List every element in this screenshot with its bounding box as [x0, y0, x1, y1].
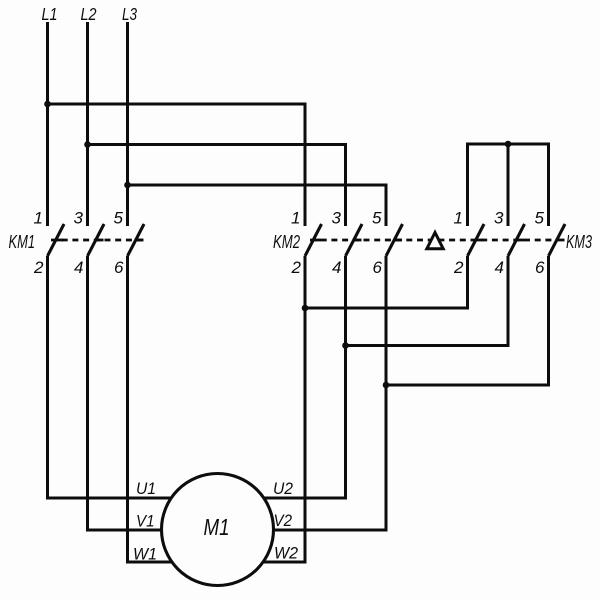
KM1 contact blade pole 5-6: [128, 224, 145, 256]
svg-text:L1: L1: [42, 4, 58, 24]
wire KM2 pin 6 to motor V2: [250, 256, 386, 530]
svg-text:2: 2: [291, 258, 302, 277]
svg-text:KM3: KM3: [566, 232, 592, 252]
svg-text:5: 5: [535, 209, 545, 228]
svg-text:3: 3: [74, 209, 84, 228]
KM2 contact blade pole 3-4: [346, 224, 363, 256]
svg-text:1: 1: [34, 209, 43, 228]
junction node W2 link: [302, 305, 309, 312]
wire L3 vertical: [126, 22, 129, 226]
KM2-KM3 mechanical linkage dashed line: [310, 239, 558, 242]
wire KM1 pin 6 to motor W1: [128, 256, 186, 562]
wire KM2 pin 2 to motor W2: [250, 256, 305, 562]
svg-text:3: 3: [332, 209, 342, 228]
wire L2 vertical: [86, 22, 89, 226]
svg-text:2: 2: [33, 258, 44, 277]
wire KM3 pin 6 to node V2: [386, 256, 549, 385]
junction node L2/KM2 branch: [84, 141, 91, 148]
svg-text:V2: V2: [274, 511, 293, 530]
svg-text:U1: U1: [136, 479, 156, 498]
KM3 contact blade pole 1-2: [468, 224, 485, 256]
svg-text:1: 1: [454, 209, 463, 228]
wire KM2 pin 4 to motor U2: [250, 256, 346, 498]
KM1 contact blade pole 3-4: [88, 224, 105, 256]
svg-text:W1: W1: [133, 545, 157, 564]
wire L3 branch to KM2 pin 5: [128, 185, 387, 226]
junction node U2 link: [342, 342, 349, 349]
wire L1 branch to KM2 pin 1: [48, 104, 306, 226]
junction node L1/KM2 branch: [44, 101, 51, 108]
wire L2 branch to KM2 pin 3: [88, 145, 346, 227]
KM1 contact blade pole 1-2: [48, 224, 65, 256]
svg-text:2: 2: [453, 258, 464, 277]
KM2 contact blade pole 1-2: [305, 224, 322, 256]
svg-text:3: 3: [494, 209, 504, 228]
svg-text:U2: U2: [273, 479, 293, 498]
svg-text:KM1: KM1: [9, 232, 36, 252]
svg-text:1: 1: [291, 209, 300, 228]
svg-text:6: 6: [373, 258, 383, 277]
KM3 contact blade pole 3-4: [508, 224, 525, 256]
wire KM3 pin 2 to node W2: [305, 256, 468, 308]
KM1 mechanical linkage dashed line: [51, 239, 144, 242]
wire KM3 pin 4 to node U2: [346, 256, 509, 346]
svg-text:W2: W2: [274, 544, 299, 563]
svg-text:4: 4: [495, 258, 504, 277]
svg-text:6: 6: [535, 258, 545, 277]
svg-text:4: 4: [74, 258, 83, 277]
junction node star bus: [505, 141, 512, 148]
svg-text:M1: M1: [204, 514, 230, 540]
KM2 contact blade pole 5-6: [386, 224, 403, 256]
delta symbol on linkage: [427, 233, 443, 249]
svg-text:L2: L2: [81, 4, 97, 24]
wire L1 vertical: [46, 22, 49, 226]
junction node L3/KM2 branch: [124, 182, 131, 189]
wire KM3 pin 3 riser: [507, 144, 510, 226]
motor M1 body: [162, 474, 274, 586]
svg-text:V1: V1: [136, 512, 155, 531]
junction node V2 link: [383, 382, 390, 389]
svg-text:5: 5: [372, 209, 382, 228]
svg-text:6: 6: [114, 258, 124, 277]
svg-text:5: 5: [114, 209, 124, 228]
wire KM1 pin 2 to motor U1: [48, 256, 186, 498]
svg-text:L3: L3: [122, 4, 137, 24]
svg-text:4: 4: [332, 258, 341, 277]
wire KM1 pin 4 to motor V1: [88, 256, 176, 530]
wire KM3 star-point bus: [468, 144, 549, 226]
svg-text:KM2: KM2: [273, 232, 300, 252]
KM3 contact blade pole 5-6: [549, 224, 566, 256]
